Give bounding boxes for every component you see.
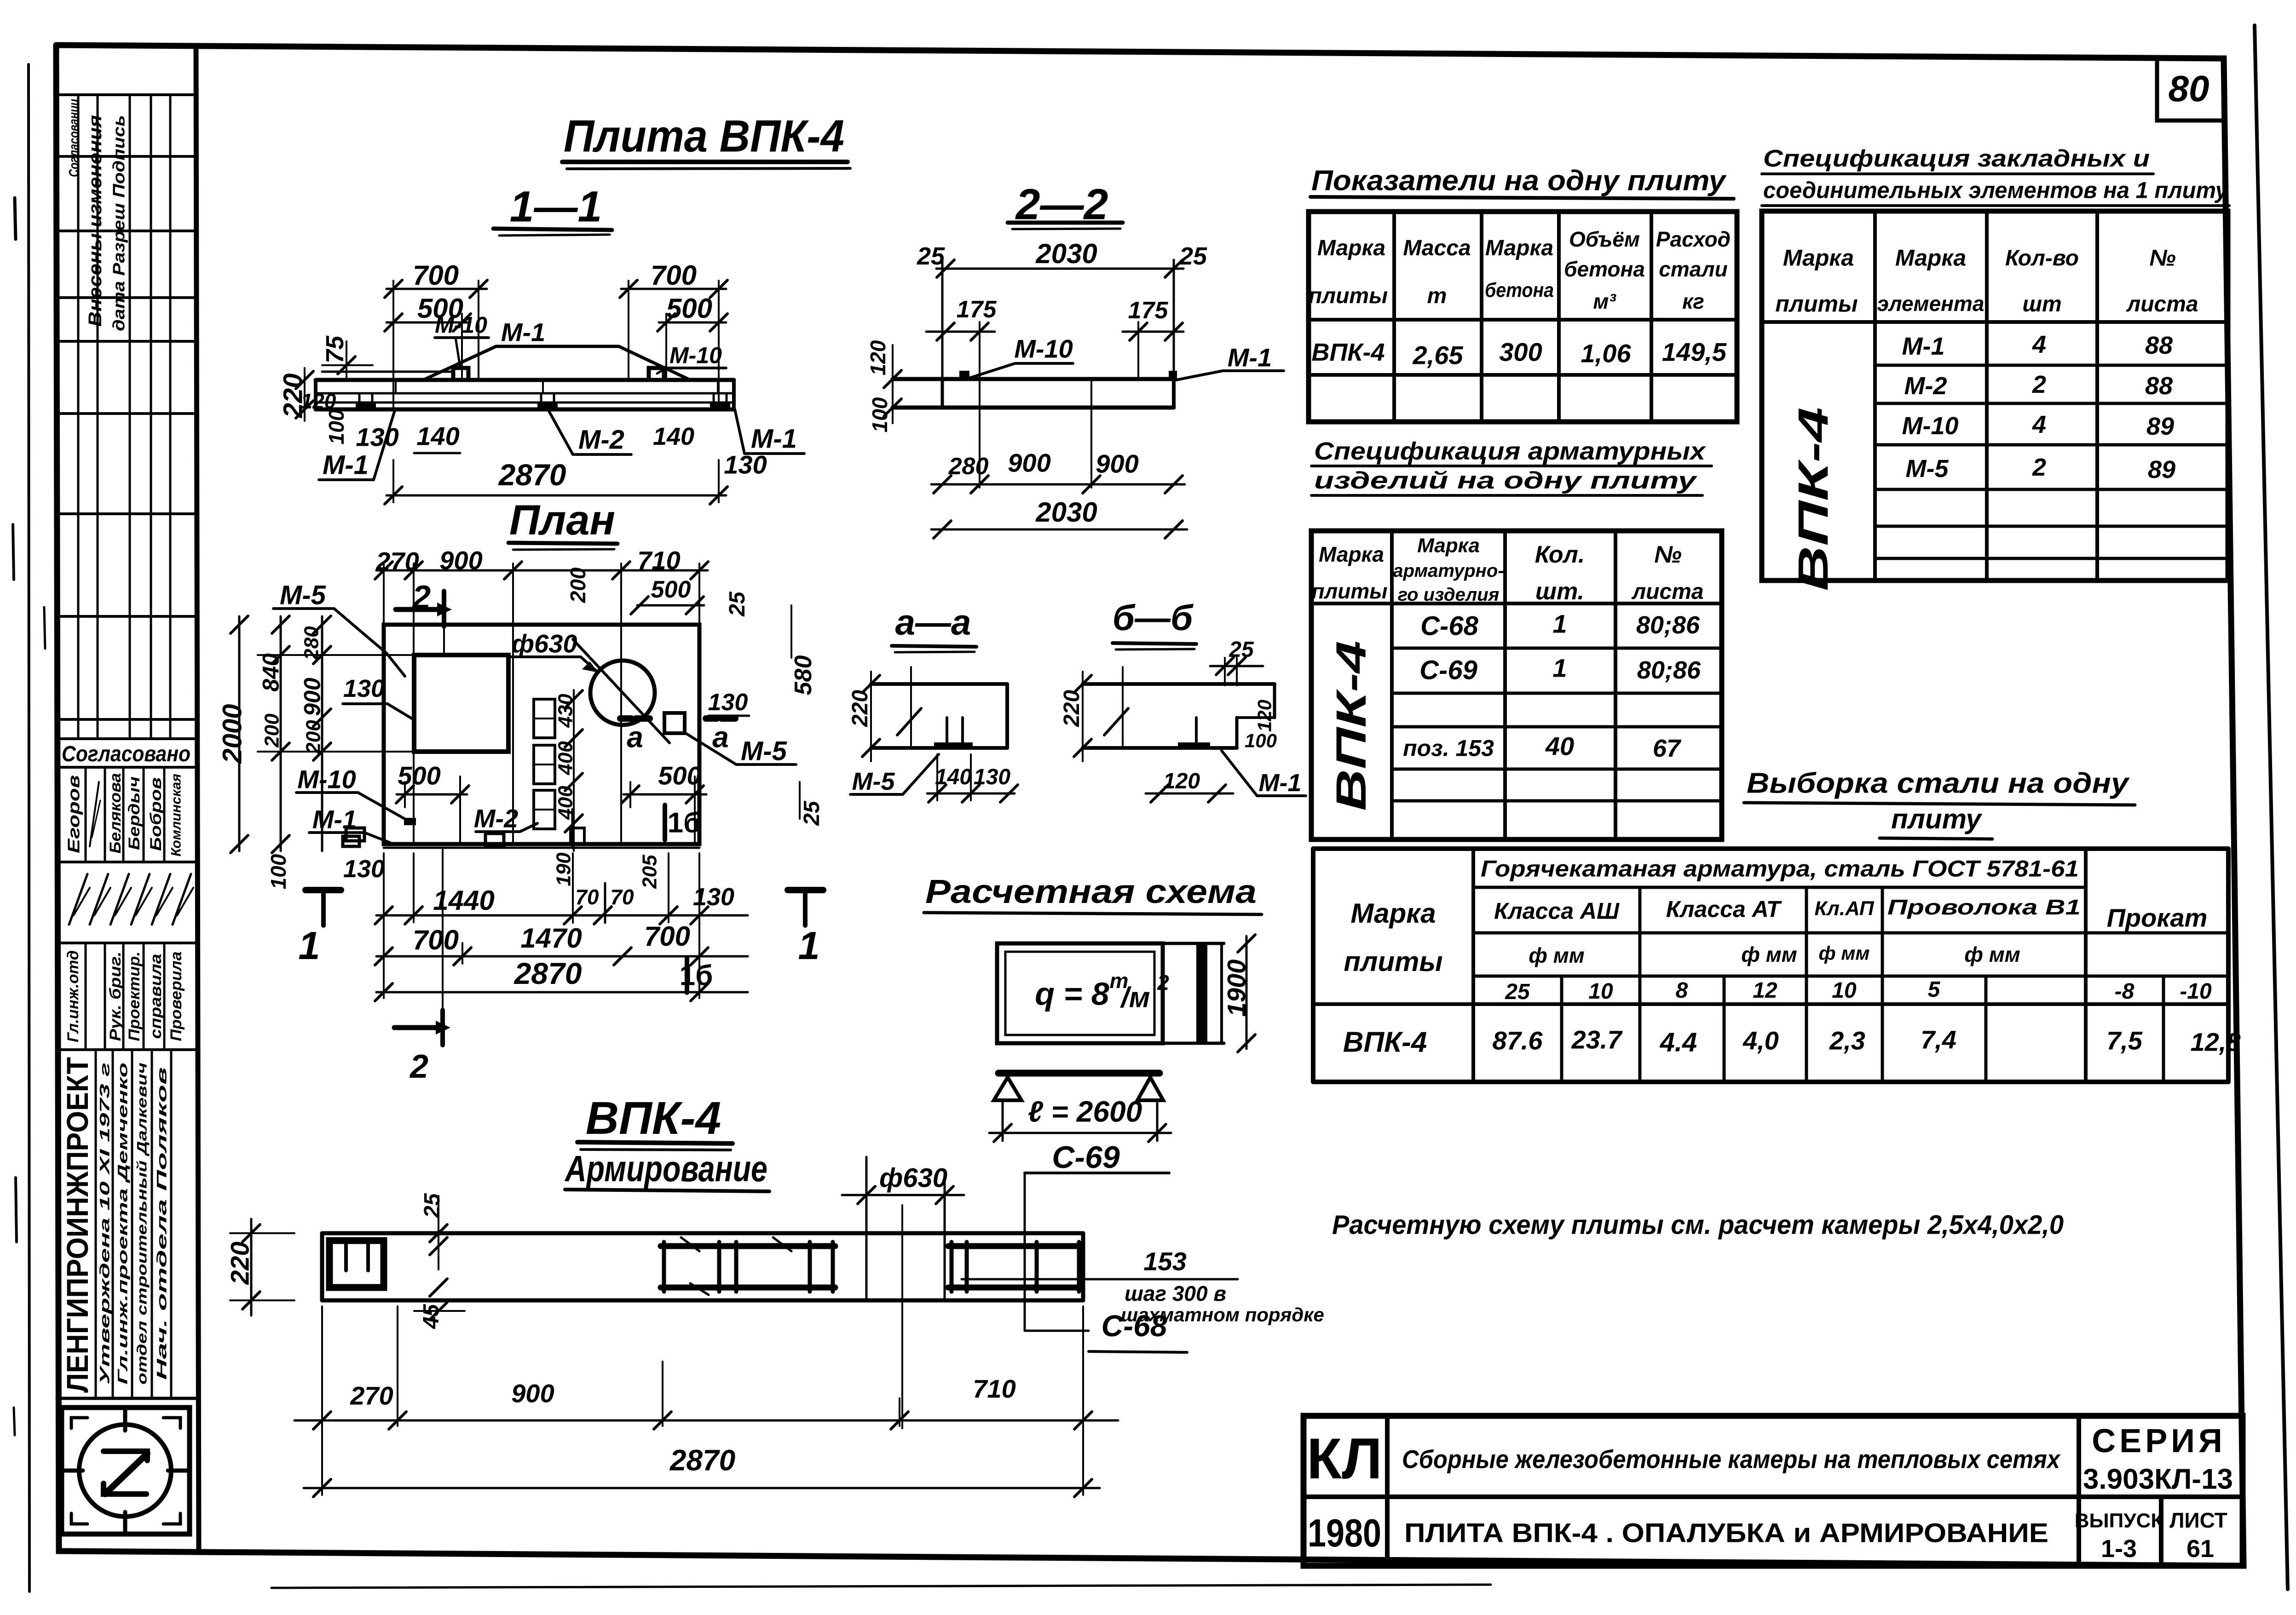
svg-text:С-68: С-68	[1420, 611, 1478, 641]
svg-text:120: 120	[1254, 700, 1275, 732]
svg-text:М-10: М-10	[435, 312, 487, 338]
svg-text:88: 88	[2145, 332, 2173, 359]
svg-text:7,4: 7,4	[1921, 1025, 1956, 1054]
svg-text:4: 4	[2032, 331, 2046, 358]
svg-text:М-1: М-1	[751, 424, 797, 454]
svg-text:25: 25	[1505, 980, 1530, 1004]
svg-text:Кол-во: Кол-во	[2005, 246, 2079, 270]
svg-text:1980: 1980	[1308, 1512, 1381, 1555]
svg-text:400: 400	[554, 741, 577, 776]
svg-text:130: 130	[343, 675, 385, 702]
svg-text:Спецификация закладных и: Спецификация закладных и	[1763, 145, 2150, 172]
svg-text:Расчетную схему плиты см.: Расчетную схему плиты см. расчет камеры …	[1332, 1210, 2064, 1240]
svg-text:М-5: М-5	[852, 768, 895, 795]
svg-text:Марка: Марка	[1485, 236, 1553, 260]
svg-text:580: 580	[790, 655, 817, 695]
svg-text:67: 67	[1653, 735, 1682, 762]
svg-text:М-1: М-1	[1902, 333, 1945, 360]
svg-text:го изделия: го изделия	[1398, 585, 1500, 605]
svg-text:ЛЕНГИПРОИНЖПРОЕКТ: ЛЕНГИПРОИНЖПРОЕКТ	[60, 1057, 94, 1393]
svg-text:листа: листа	[1631, 580, 1703, 604]
svg-text:М-1: М-1	[1228, 343, 1272, 372]
svg-text:1440: 1440	[433, 885, 494, 916]
svg-text:1-3: 1-3	[2101, 1535, 2137, 1563]
svg-text:Марка: Марка	[1319, 542, 1384, 566]
svg-text:75: 75	[321, 335, 349, 363]
svg-text:плиту: плиту	[1891, 804, 1982, 834]
svg-text:Бобров: Бобров	[147, 777, 165, 851]
svg-text:Рук. бриг.: Рук. бриг.	[107, 952, 124, 1041]
svg-text:С-68: С-68	[1101, 1309, 1167, 1343]
svg-text:ф630: ф630	[512, 629, 577, 658]
svg-text:900: 900	[1096, 449, 1138, 478]
svg-text:70: 70	[610, 885, 634, 909]
svg-text:8: 8	[1676, 978, 1688, 1003]
svg-text:бетона: бетона	[1564, 257, 1645, 281]
svg-text:2030: 2030	[1035, 238, 1097, 269]
svg-text:149,5: 149,5	[1662, 338, 1727, 367]
svg-text:ВПК-4: ВПК-4	[1311, 339, 1385, 366]
svg-text:10: 10	[1588, 979, 1613, 1004]
svg-text:Плита ВПК-4: Плита ВПК-4	[564, 110, 844, 161]
svg-text:89: 89	[2148, 456, 2175, 483]
svg-text:7,5: 7,5	[2106, 1026, 2143, 1055]
svg-text:изделий на одну плиту: изделий на одну плиту	[1314, 467, 1698, 494]
svg-text:Марка: Марка	[1417, 534, 1480, 557]
svg-text:2870: 2870	[498, 458, 566, 492]
svg-text:700: 700	[413, 925, 459, 955]
svg-text:1б: 1б	[668, 807, 701, 839]
svg-text:Внесены изменения: Внесены изменения	[85, 115, 105, 327]
svg-text:120: 120	[866, 340, 890, 375]
svg-text:Прокат: Прокат	[2107, 903, 2208, 932]
svg-text:ф мм: ф мм	[1819, 943, 1870, 964]
svg-text:С-69: С-69	[1419, 655, 1477, 685]
svg-text:25: 25	[725, 591, 750, 617]
svg-text:Горячекатаная арматура, сталь: Горячекатаная арматура, сталь ГОСТ 5781-…	[1481, 856, 2079, 882]
svg-text:4,0: 4,0	[1742, 1026, 1779, 1055]
svg-text:Бердыч: Бердыч	[126, 776, 143, 850]
svg-text:300: 300	[1499, 338, 1542, 367]
svg-text:500: 500	[666, 293, 712, 324]
svg-text:а: а	[627, 720, 643, 753]
svg-text:ВПК-4: ВПК-4	[1790, 407, 1837, 591]
svg-text:плиты: плиты	[1344, 946, 1442, 977]
svg-text:Сборные железобетонные камеры: Сборные железобетонные камеры на тепловы…	[1402, 1445, 2061, 1474]
svg-text:100: 100	[266, 854, 290, 889]
svg-text:2: 2	[1157, 971, 1169, 994]
svg-text:ф мм: ф мм	[1741, 943, 1797, 966]
svg-text:2,65: 2,65	[1413, 341, 1464, 370]
svg-text:кг: кг	[1682, 289, 1704, 313]
svg-text:1: 1	[1552, 609, 1567, 638]
svg-text:100: 100	[324, 409, 348, 444]
svg-text:Егоров: Егоров	[64, 775, 83, 853]
svg-text:2: 2	[2032, 454, 2046, 481]
svg-text:175: 175	[1128, 297, 1169, 324]
svg-text:М-2: М-2	[578, 425, 624, 454]
svg-text:ВПК-4: ВПК-4	[586, 1092, 721, 1144]
svg-text:Согласовании: Согласовании	[67, 99, 82, 177]
svg-text:2: 2	[2032, 371, 2046, 398]
svg-text:87.6: 87.6	[1493, 1026, 1543, 1055]
svg-text:900: 900	[1008, 448, 1050, 477]
svg-text:листа: листа	[2126, 292, 2198, 316]
svg-text:шт.: шт.	[1535, 578, 1584, 605]
svg-text:стали: стали	[1659, 257, 1727, 281]
svg-text:ВПК-4: ВПК-4	[1343, 1027, 1427, 1058]
svg-text:Утверждена 10 XI 1973 г: Утверждена 10 XI 1973 г	[98, 1063, 113, 1385]
svg-text:89: 89	[2146, 413, 2174, 440]
svg-text:25: 25	[917, 242, 945, 270]
svg-text:Гл.инж.отд: Гл.инж.отд	[64, 950, 82, 1042]
svg-text:153: 153	[1143, 1247, 1186, 1276]
svg-text:80;86: 80;86	[1637, 656, 1701, 684]
svg-text:Кол.: Кол.	[1535, 541, 1585, 568]
svg-text:900: 900	[511, 1379, 554, 1408]
svg-text:q = 8: q = 8	[1035, 976, 1109, 1012]
svg-text:120: 120	[1163, 769, 1200, 793]
svg-text:61: 61	[2186, 1535, 2214, 1563]
svg-text:220: 220	[848, 690, 872, 727]
svg-text:280: 280	[948, 453, 989, 480]
svg-text:Показатели на одну плиту: Показатели на одну плиту	[1311, 165, 1727, 197]
svg-text:2870: 2870	[513, 956, 582, 990]
svg-text:140: 140	[416, 422, 459, 451]
svg-text:Марка: Марка	[1895, 245, 1966, 271]
svg-text:23.7: 23.7	[1571, 1025, 1623, 1054]
svg-text:Проволока В1: Проволока В1	[1887, 895, 2081, 919]
svg-text:М-2: М-2	[474, 804, 518, 833]
svg-text:плиты: плиты	[1312, 579, 1388, 603]
svg-text:Расход: Расход	[1656, 227, 1731, 251]
svg-text:700: 700	[413, 260, 459, 291]
svg-text:1б: 1б	[680, 960, 713, 992]
svg-text:ф мм: ф мм	[1964, 943, 2020, 966]
svg-text:/м: /м	[1119, 982, 1150, 1014]
svg-text:Объём: Объём	[1569, 227, 1640, 251]
svg-text:плиты: плиты	[1309, 284, 1388, 308]
svg-text:130: 130	[343, 855, 385, 883]
svg-text:М-10: М-10	[297, 765, 356, 794]
svg-text:бетона: бетона	[1485, 279, 1554, 301]
svg-text:430: 430	[554, 694, 577, 728]
svg-text:100: 100	[1245, 730, 1277, 752]
svg-text:12: 12	[1753, 978, 1777, 1003]
svg-text:500: 500	[651, 576, 691, 603]
svg-text:Нач. отдела Поляков: Нач. отдела Поляков	[155, 1067, 170, 1380]
svg-text:1: 1	[298, 924, 320, 968]
svg-text:отдел строительный Далкевич: отдел строительный Далкевич	[135, 1063, 150, 1385]
svg-text:175: 175	[957, 296, 997, 323]
svg-text:205: 205	[638, 855, 661, 889]
svg-text:Белякова: Белякова	[107, 773, 124, 854]
svg-text:СЕРИЯ: СЕРИЯ	[2092, 1423, 2226, 1460]
svg-text:№: №	[1654, 541, 1682, 568]
svg-text:2: 2	[409, 1048, 428, 1085]
svg-text:700: 700	[644, 921, 690, 952]
svg-text:100: 100	[868, 397, 892, 432]
svg-text:М-2: М-2	[1904, 372, 1947, 400]
svg-text:Марка: Марка	[1350, 898, 1436, 929]
svg-text:2030: 2030	[1035, 497, 1097, 528]
svg-text:ЛИСТ: ЛИСТ	[2169, 1508, 2227, 1532]
svg-text:1: 1	[798, 924, 819, 968]
svg-text:3.903КЛ-13: 3.903КЛ-13	[2083, 1464, 2233, 1495]
svg-text:1: 1	[1552, 654, 1567, 683]
svg-text:Армирование: Армирование	[564, 1148, 767, 1189]
svg-text:М-1: М-1	[1259, 769, 1302, 797]
svg-text:70: 70	[575, 885, 599, 909]
svg-text:Гл.инж.проекта Демченко: Гл.инж.проекта Демченко	[115, 1063, 131, 1385]
svg-text:плиты: плиты	[1775, 291, 1858, 317]
svg-text:справила: справила	[147, 954, 165, 1039]
svg-text:Класса АШ: Класса АШ	[1494, 898, 1620, 924]
svg-text:ВПК-4: ВПК-4	[1328, 641, 1375, 811]
svg-text:12,8: 12,8	[2191, 1028, 2241, 1057]
svg-text:190: 190	[552, 852, 575, 886]
svg-text:ℓ = 2600: ℓ = 2600	[1028, 1095, 1142, 1128]
svg-text:140: 140	[653, 423, 694, 450]
svg-text:соединительных элементов на 1: соединительных элементов на 1 плиту	[1763, 178, 2229, 203]
svg-text:220: 220	[225, 1241, 254, 1285]
svg-text:М-5: М-5	[1906, 455, 1949, 483]
svg-text:25: 25	[800, 800, 824, 826]
svg-text:М-5: М-5	[280, 580, 326, 610]
svg-text:5: 5	[1928, 977, 1941, 1002]
svg-text:шт: шт	[2022, 292, 2061, 316]
svg-text:м³: м³	[1593, 289, 1616, 313]
svg-text:40: 40	[1545, 732, 1574, 761]
svg-text:25: 25	[420, 1193, 444, 1218]
svg-text:План: План	[509, 497, 615, 544]
svg-text:-8: -8	[2115, 979, 2134, 1004]
svg-text:М-1: М-1	[501, 318, 545, 347]
svg-text:т: т	[1427, 284, 1447, 308]
svg-text:-10: -10	[2180, 979, 2212, 1004]
svg-text:140: 140	[935, 765, 972, 789]
svg-text:Марка: Марка	[1783, 245, 1854, 271]
svg-text:2,3: 2,3	[1829, 1026, 1865, 1055]
svg-text:4: 4	[2032, 411, 2046, 438]
svg-text:М-10: М-10	[1014, 334, 1073, 363]
svg-text:270: 270	[350, 1381, 393, 1410]
svg-text:ф мм: ф мм	[1529, 943, 1585, 967]
svg-text:дата Разреш Подпись: дата Разреш Подпись	[110, 115, 128, 331]
svg-text:М-5: М-5	[741, 736, 787, 766]
svg-text:4.4: 4.4	[1660, 1027, 1697, 1057]
svg-text:б—б: б—б	[1113, 597, 1194, 638]
svg-text:элемента: элемента	[1877, 292, 1984, 316]
svg-text:Спецификация арматурных: Спецификация арматурных	[1314, 437, 1706, 465]
svg-text:а: а	[712, 720, 729, 753]
svg-text:2870: 2870	[669, 1443, 735, 1477]
svg-text:Масса: Масса	[1403, 236, 1471, 260]
svg-text:1—1: 1—1	[510, 182, 602, 231]
svg-text:88: 88	[2145, 372, 2173, 400]
svg-text:80;86: 80;86	[1636, 611, 1700, 639]
svg-text:арматурно-: арматурно-	[1393, 561, 1504, 581]
svg-text:130: 130	[724, 450, 767, 479]
svg-text:поз. 153: поз. 153	[1403, 736, 1494, 761]
svg-text:Согласовано: Согласовано	[62, 742, 190, 766]
svg-text:130: 130	[708, 689, 748, 716]
svg-text:Выборка стали на одну: Выборка стали на одну	[1747, 768, 2130, 799]
svg-text:М-10: М-10	[1902, 412, 1958, 440]
svg-text:Расчетная схема: Расчетная схема	[925, 874, 1257, 910]
svg-text:10: 10	[1832, 978, 1857, 1003]
svg-text:80: 80	[2169, 68, 2209, 109]
svg-text:Комлинская: Комлинская	[169, 774, 184, 856]
svg-text:Проектир.: Проектир.	[126, 952, 143, 1041]
svg-text:Проверила: Проверила	[167, 952, 185, 1041]
svg-text:КЛ: КЛ	[1307, 1427, 1382, 1491]
svg-text:200: 200	[566, 567, 590, 603]
svg-text:220: 220	[1060, 690, 1084, 727]
svg-text:а—а: а—а	[895, 602, 971, 642]
svg-text:С-69: С-69	[1052, 1140, 1120, 1175]
svg-text:М-10: М-10	[669, 343, 722, 368]
svg-text:ПЛИТА ВПК-4 . ОПАЛУБКА и АР: ПЛИТА ВПК-4 . ОПАЛУБКА и АРМИРОВАНИЕ	[1404, 1518, 2048, 1548]
svg-text:130: 130	[356, 423, 398, 452]
svg-text:шаг 300 в: шаг 300 в	[1125, 1282, 1226, 1305]
svg-text:710: 710	[973, 1374, 1015, 1403]
svg-text:Кл.АП: Кл.АП	[1815, 897, 1875, 920]
svg-text:ф630: ф630	[879, 1163, 947, 1193]
svg-text:25: 25	[1179, 242, 1207, 270]
svg-text:№: №	[2149, 245, 2175, 271]
svg-text:1,06: 1,06	[1581, 339, 1632, 368]
svg-text:ВЫПУСК: ВЫПУСК	[2075, 1509, 2163, 1532]
svg-text:Класса АТ: Класса АТ	[1666, 897, 1783, 922]
svg-text:700: 700	[651, 260, 697, 291]
svg-text:1470: 1470	[520, 923, 582, 954]
svg-text:М-1: М-1	[323, 450, 369, 480]
svg-text:2000: 2000	[217, 704, 247, 764]
svg-text:Марка: Марка	[1317, 236, 1385, 260]
